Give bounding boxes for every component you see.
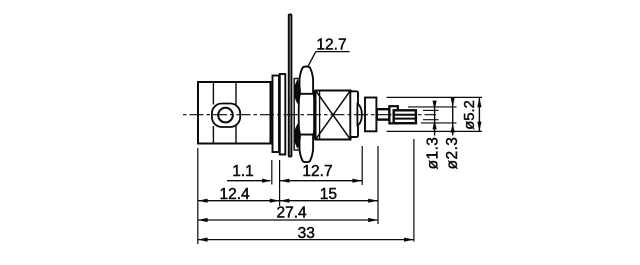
svg-text:12.7: 12.7: [302, 163, 332, 180]
svg-text:27.4: 27.4: [277, 205, 308, 222]
svg-text:ø1.3: ø1.3: [425, 137, 442, 170]
svg-text:ø2.3: ø2.3: [444, 137, 461, 170]
svg-text:33: 33: [298, 225, 315, 242]
svg-text:12.7: 12.7: [316, 36, 346, 53]
svg-text:ø5.2: ø5.2: [462, 100, 478, 130]
svg-text:12.4: 12.4: [220, 186, 251, 203]
svg-text:15: 15: [320, 186, 337, 203]
svg-text:1.1: 1.1: [232, 163, 254, 180]
